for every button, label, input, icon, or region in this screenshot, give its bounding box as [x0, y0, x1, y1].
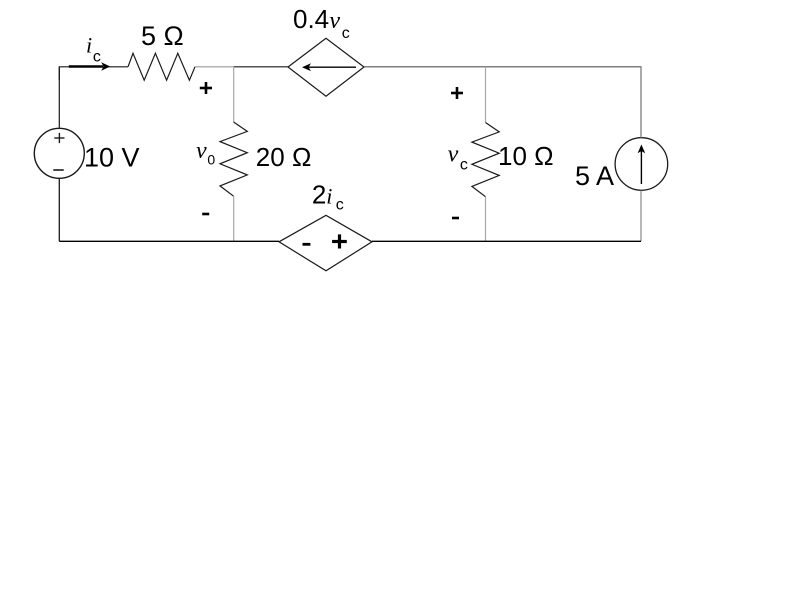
svg-text:c: c: [336, 197, 344, 214]
svg-text:c: c: [342, 25, 350, 42]
current source 5A circle: [615, 138, 668, 191]
resistor 20ohm zigzag: [220, 122, 247, 196]
wire diamond to top-right corner: [364, 67, 641, 138]
svg-text:0: 0: [207, 152, 215, 168]
wire right side upper (gray): [640, 67, 642, 138]
vsource plus: [54, 133, 64, 143]
svg-text:c: c: [460, 157, 468, 174]
svg-text:v: v: [196, 138, 207, 164]
resistor 5ohm zigzag: [128, 53, 195, 80]
svg-text:i: i: [326, 183, 332, 208]
wire node A to diamond: [234, 66, 288, 68]
dependent current source 0.4vc diamond: [288, 38, 364, 96]
node B junction vertical (gray) upper: [485, 67, 487, 123]
svg-text:v: v: [448, 142, 459, 168]
label 5 Ohm: [141, 21, 184, 51]
wire 10ohm down to bottom (gray): [485, 197, 487, 242]
wire left side upper: [58, 67, 60, 129]
svg-text:5 A: 5 A: [575, 161, 614, 191]
wire left side lower: [58, 178, 60, 241]
wire right side lower (gray): [640, 190, 642, 241]
svg-text:c: c: [93, 49, 101, 66]
label 10 V: [84, 143, 140, 173]
label 10 Ohm: [498, 141, 554, 171]
minus sign vc: [452, 217, 459, 220]
diamond plus sign: [332, 234, 347, 248]
svg-text:0.4: 0.4: [293, 4, 329, 34]
svg-text:i: i: [86, 33, 92, 58]
label v_c: [448, 142, 468, 174]
svg-text:10 Ω: 10 Ω: [498, 141, 554, 171]
label 2i_c: [312, 179, 344, 213]
wire bottom left segment: [59, 240, 279, 242]
svg-text:5 Ω: 5 Ω: [141, 21, 184, 51]
wire bottom right segment: [372, 240, 641, 242]
label 5 A: [575, 161, 614, 191]
svg-text:v: v: [329, 8, 340, 34]
label 0.4v_c: [293, 4, 350, 42]
svg-text:10 V: 10 V: [84, 143, 140, 173]
label i_c: [86, 33, 101, 66]
current arrow i_c: [69, 62, 110, 70]
plus sign vc: [451, 87, 463, 99]
svg-text:2: 2: [312, 179, 326, 209]
minus sign v0: [202, 213, 209, 216]
wire resistor to node A (gray): [195, 66, 234, 68]
voltage source 10V circle: [34, 128, 84, 178]
plus sign v0: [200, 82, 212, 94]
resistor 10ohm zigzag: [472, 123, 499, 197]
wire 20ohm down to bottom (gray): [233, 196, 235, 241]
diamond minus sign: [303, 243, 311, 246]
dependent voltage source 2ic diamond: [279, 215, 372, 270]
wire node A down to 20ohm (gray): [233, 67, 235, 122]
svg-text:20 Ω: 20 Ω: [256, 142, 312, 172]
label 20 Ohm: [256, 142, 312, 172]
wire top-left segment: [59, 67, 128, 80]
label v_0: [196, 138, 215, 168]
vsource minus: [53, 169, 63, 171]
